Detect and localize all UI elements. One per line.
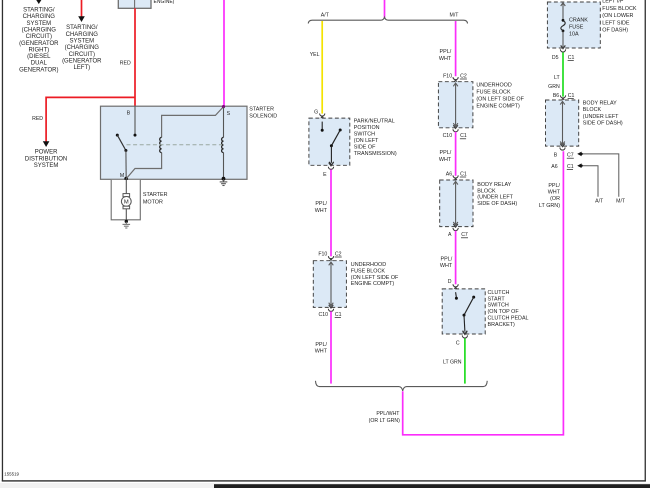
body relay block box (M/T)	[440, 180, 473, 227]
svg-text:10A: 10A	[569, 32, 579, 38]
engine connector box (cut off at top)	[118, 0, 151, 8]
wire PPL/WHT from E to fuse block	[330, 170, 332, 257]
scrollbar thumb	[214, 484, 650, 488]
svg-text:SYSTEM: SYSTEM	[34, 163, 59, 169]
brace splitting to A/T and M/T	[308, 17, 467, 23]
solenoid ground node	[222, 177, 226, 181]
svg-text:C1: C1	[460, 171, 467, 177]
wire LT GRN from clutch switch	[464, 338, 466, 383]
svg-text:SIDE OF DASH): SIDE OF DASH)	[477, 201, 517, 207]
svg-text:OF DASH): OF DASH)	[602, 28, 628, 34]
connector F10/C2 (A/T)	[328, 256, 333, 259]
svg-text:DUAL: DUAL	[31, 61, 48, 67]
page border right	[645, 0, 646, 481]
svg-text:ENGINE COMPT): ENGINE COMPT)	[351, 281, 395, 287]
wire PPL/WHT M/T middle	[455, 132, 457, 176]
svg-text:A/T: A/T	[595, 199, 604, 205]
A/T pointer arrowhead	[577, 163, 581, 168]
svg-text:FUSE: FUSE	[569, 25, 584, 31]
svg-text:M/T: M/T	[450, 13, 460, 19]
brace merging A/T and M/T wires	[316, 381, 488, 391]
svg-text:PPL/: PPL/	[441, 256, 453, 262]
svg-text:(ON LEFT: (ON LEFT	[354, 138, 379, 144]
svg-text:CIRCUIT): CIRCUIT)	[26, 34, 52, 40]
connector B/C7	[560, 144, 565, 147]
M/T pointer line	[581, 154, 619, 197]
svg-text:S: S	[227, 111, 231, 117]
svg-text:UNDERHOOD: UNDERHOOD	[476, 83, 511, 89]
svg-text:STARTER: STARTER	[143, 192, 168, 198]
wire PPL ignition feed stub	[384, 0, 386, 19]
svg-text:LT: LT	[554, 75, 560, 81]
wire PPL/WHT from fuse block to junction	[330, 311, 332, 383]
body relay block (M/T) internal circuit	[455, 182, 457, 224]
svg-text:D: D	[448, 279, 452, 285]
page border left	[2, 0, 3, 481]
wire RED from engine box to solenoid B	[134, 8, 136, 106]
connector at E	[329, 163, 334, 166]
svg-text:C2: C2	[460, 73, 467, 79]
connector B6/C1	[560, 95, 565, 98]
connector D5/C1	[561, 45, 566, 48]
svg-text:STARTING/: STARTING/	[23, 8, 55, 14]
svg-text:PARK/NEUTRAL: PARK/NEUTRAL	[354, 119, 395, 125]
svg-text:C1: C1	[460, 133, 467, 139]
starter solenoid box	[101, 106, 248, 179]
solenoid S node	[222, 105, 225, 108]
clutch start switch contacts	[455, 292, 458, 297]
arrow to power distribution system	[43, 141, 50, 147]
svg-text:FUSE BLOCK: FUSE BLOCK	[476, 90, 511, 96]
starter motor ground lead	[125, 209, 127, 221]
svg-text:A6: A6	[446, 171, 452, 177]
svg-text:(CHARGING: (CHARGING	[22, 27, 57, 33]
starter motor M lead	[125, 179, 127, 193]
ground at solenoid	[223, 179, 225, 181]
svg-text:(ON LEFT SIDE OF: (ON LEFT SIDE OF	[476, 96, 524, 102]
svg-text:(ON TOP OF: (ON TOP OF	[488, 309, 520, 315]
connector at D	[453, 284, 458, 287]
solenoid B contact wire	[134, 106, 136, 135]
wire PPL/WHT M/T lower	[455, 231, 457, 285]
svg-text:CHARGING: CHARGING	[23, 14, 56, 20]
arrow to starting/charging system (generator right)	[36, 0, 42, 4]
svg-text:POSITION: POSITION	[354, 125, 380, 131]
connector F10/C2 (M/T)	[453, 77, 458, 80]
svg-text:GRN: GRN	[548, 84, 560, 90]
svg-text:C10: C10	[318, 312, 328, 318]
svg-text:LEFT SIDE: LEFT SIDE	[602, 20, 630, 26]
svg-text:B6: B6	[553, 93, 559, 99]
clutch start switch box	[442, 289, 485, 334]
svg-text:PPL/WHT: PPL/WHT	[376, 411, 400, 417]
svg-text:TRANSMISSION): TRANSMISSION)	[354, 151, 397, 157]
svg-text:YEL: YEL	[310, 52, 320, 58]
svg-text:(GENERATOR: (GENERATOR	[19, 41, 59, 47]
svg-text:C10: C10	[443, 133, 453, 139]
svg-text:FUSE BLOCK: FUSE BLOCK	[602, 6, 637, 12]
wire PPL/WHT (OR LT GRN) to body relay block	[403, 151, 564, 435]
wire LT GRN (right column)	[562, 52, 564, 96]
svg-text:ENGINE COMPT): ENGINE COMPT)	[476, 103, 520, 109]
svg-text:B: B	[127, 110, 131, 116]
svg-text:A: A	[448, 232, 452, 238]
svg-text:RED: RED	[32, 116, 43, 122]
svg-text:(GENERATOR: (GENERATOR	[62, 58, 102, 64]
solenoid pull-in winding path M to S	[126, 153, 161, 179]
solenoid pull-in coil	[160, 137, 162, 152]
solenoid plunger linkage (dashed)	[127, 144, 223, 146]
svg-text:GENERATOR): GENERATOR)	[19, 67, 58, 73]
svg-text:G: G	[314, 109, 318, 115]
underhood fuse block (A/T) internal circuit	[330, 263, 332, 305]
red wire stub to generator left	[81, 0, 83, 17]
solenoid contact switch	[116, 134, 119, 137]
starter motor symbol	[123, 194, 130, 197]
park/neutral position switch box	[309, 118, 350, 165]
svg-text:A/T: A/T	[321, 13, 330, 19]
body relay block (right) internal circuit	[562, 102, 564, 143]
svg-text:ENGINE): ENGINE)	[154, 0, 175, 5]
underhood fuse block box (M/T)	[438, 82, 473, 128]
starter motor bracket	[111, 180, 140, 220]
svg-text:155519: 155519	[4, 472, 19, 477]
svg-text:MOTOR: MOTOR	[143, 199, 163, 205]
svg-text:C1: C1	[568, 93, 575, 99]
solenoid M node	[124, 177, 128, 181]
svg-text:STARTER: STARTER	[249, 106, 274, 112]
svg-text:SIDE OF: SIDE OF	[354, 144, 376, 150]
svg-text:WHT: WHT	[440, 263, 453, 269]
A/T pointer line	[581, 166, 598, 197]
svg-text:PPL/: PPL/	[440, 49, 452, 55]
svg-text:CLUTCH: CLUTCH	[488, 290, 510, 296]
svg-text:SWITCH: SWITCH	[354, 132, 375, 138]
connector at G	[320, 114, 325, 117]
svg-text:(ON LOWER: (ON LOWER	[602, 13, 633, 19]
svg-text:BRACKET): BRACKET)	[488, 322, 515, 328]
wire YEL	[321, 21, 323, 114]
svg-text:BODY RELAY: BODY RELAY	[583, 101, 617, 107]
svg-text:M/T: M/T	[616, 199, 626, 205]
connector A/C7 (M/T)	[453, 224, 458, 227]
svg-text:STARTING/: STARTING/	[66, 25, 98, 31]
svg-text:FUSE BLOCK: FUSE BLOCK	[351, 269, 386, 275]
svg-text:WHT: WHT	[548, 190, 561, 196]
solenoid hold-in winding wire	[223, 107, 225, 138]
svg-text:CLUTCH PEDAL: CLUTCH PEDAL	[488, 316, 529, 322]
M/T pointer arrowhead	[577, 152, 581, 157]
svg-text:M: M	[124, 200, 129, 206]
svg-text:WHT: WHT	[315, 349, 328, 355]
svg-text:LEFT): LEFT)	[73, 65, 90, 71]
svg-text:(ON LEFT SIDE OF: (ON LEFT SIDE OF	[351, 275, 399, 281]
svg-text:F10: F10	[443, 73, 452, 79]
svg-text:C1: C1	[567, 164, 574, 170]
svg-text:PPL/: PPL/	[440, 150, 452, 156]
svg-text:WHT: WHT	[315, 208, 328, 214]
svg-text:A6: A6	[551, 164, 557, 170]
svg-text:CRANK: CRANK	[569, 18, 588, 24]
svg-text:C7: C7	[461, 232, 468, 238]
svg-text:RED: RED	[120, 61, 131, 67]
connector C10/C1 (M/T)	[453, 125, 458, 128]
svg-text:SWITCH: SWITCH	[488, 303, 509, 309]
connector at C	[463, 331, 468, 334]
svg-text:START: START	[488, 296, 506, 302]
svg-text:CIRCUIT): CIRCUIT)	[69, 52, 95, 58]
svg-text:B: B	[554, 153, 558, 159]
svg-text:(OR LT GRN): (OR LT GRN)	[369, 418, 400, 424]
svg-text:C7: C7	[567, 153, 574, 159]
svg-text:(OR: (OR	[550, 196, 560, 202]
svg-text:SOLENOID: SOLENOID	[249, 114, 277, 120]
page border bottom	[2, 480, 646, 481]
left I/P fuse block box (crank fuse)	[547, 2, 600, 48]
svg-text:C2: C2	[335, 251, 342, 257]
body relay block box (right)	[546, 100, 579, 146]
svg-text:(UNDER LEFT: (UNDER LEFT	[477, 195, 513, 201]
svg-text:DISTRIBUTION: DISTRIBUTION	[25, 156, 67, 162]
wire PPL/WHT M/T upper	[455, 21, 457, 76]
svg-text:POWER: POWER	[35, 150, 58, 156]
svg-text:WHT: WHT	[439, 56, 452, 62]
connector C10/C1 (A/T)	[329, 305, 334, 308]
svg-text:SIDE OF DASH): SIDE OF DASH)	[583, 120, 623, 126]
svg-text:PPL/: PPL/	[548, 183, 560, 189]
svg-text:M: M	[120, 173, 124, 179]
svg-text:RIGHT): RIGHT)	[28, 47, 49, 53]
wire RED branch to power distribution	[46, 97, 135, 141]
svg-text:D5: D5	[552, 55, 559, 61]
svg-text:UNDERHOOD: UNDERHOOD	[351, 262, 386, 268]
svg-text:PPL/: PPL/	[315, 342, 327, 348]
scrollbar track	[0, 483, 650, 488]
ground at starter motor	[125, 222, 127, 224]
solenoid hold-in coil	[222, 137, 224, 152]
svg-text:(CHARGING: (CHARGING	[65, 45, 100, 51]
underhood fuse block (M/T) internal circuit	[455, 84, 457, 125]
connector A6/C1 (M/T)	[453, 175, 458, 178]
wire PPL to solenoid S	[223, 0, 225, 106]
svg-text:SYSTEM: SYSTEM	[26, 21, 51, 27]
svg-text:BLOCK: BLOCK	[583, 107, 602, 113]
svg-text:LT GRN): LT GRN)	[539, 203, 560, 209]
svg-text:WHT: WHT	[439, 157, 452, 163]
park/neutral switch contacts	[321, 122, 323, 129]
svg-text:BLOCK: BLOCK	[477, 188, 496, 194]
svg-text:(UNDER LEFT: (UNDER LEFT	[583, 114, 619, 120]
svg-text:C: C	[456, 341, 460, 347]
svg-text:C1: C1	[568, 55, 575, 61]
svg-text:BODY RELAY: BODY RELAY	[477, 182, 511, 188]
crank fuse element	[561, 3, 566, 6]
svg-text:E: E	[323, 172, 327, 178]
svg-text:(DIESEL: (DIESEL	[27, 54, 51, 60]
svg-text:CHARGING: CHARGING	[66, 32, 99, 38]
svg-text:C1: C1	[335, 312, 342, 318]
svg-text:PPL/: PPL/	[315, 201, 327, 207]
svg-text:SYSTEM: SYSTEM	[69, 39, 94, 45]
arrow to starting/charging system (generator left)	[78, 16, 85, 22]
svg-text:F10: F10	[318, 251, 327, 257]
underhood fuse block box (A/T)	[313, 261, 346, 308]
svg-text:LT GRN: LT GRN	[443, 360, 462, 366]
svg-text:LEFT I/P: LEFT I/P	[602, 0, 624, 5]
